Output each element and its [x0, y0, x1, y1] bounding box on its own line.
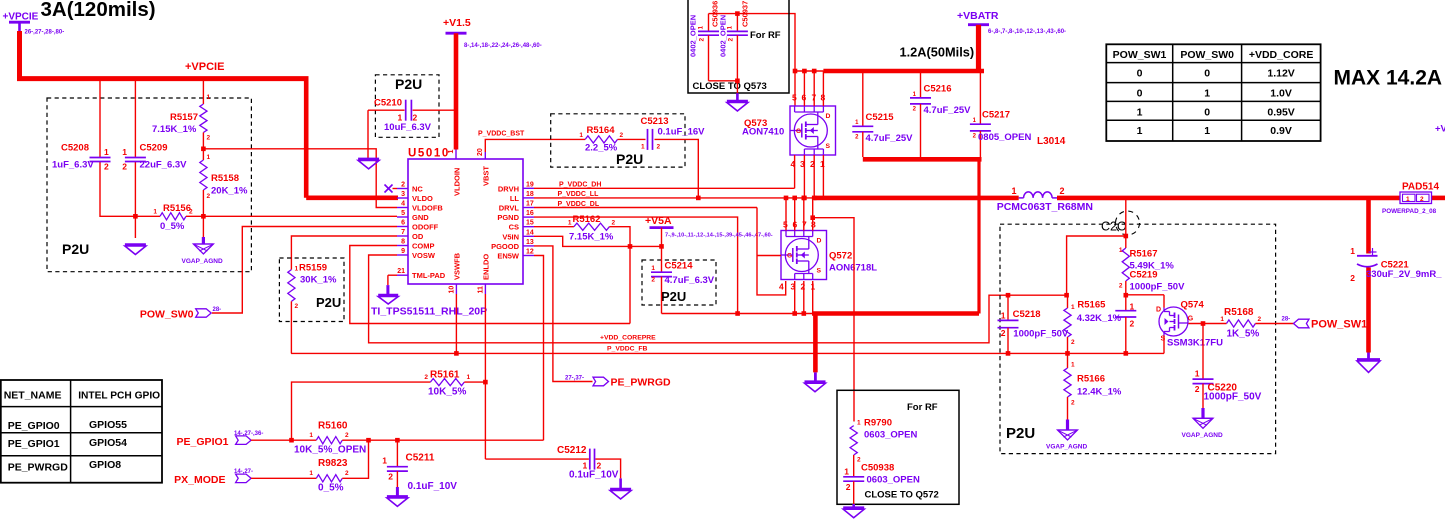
svg-text:R5160: R5160: [318, 421, 348, 432]
svg-text:10K_5%: 10K_5%: [428, 387, 466, 398]
svg-text:1: 1: [382, 456, 387, 466]
svg-text:R5159: R5159: [299, 263, 327, 274]
svg-text:+VDD_COREPRE: +VDD_COREPRE: [600, 335, 656, 342]
svg-text:1: 1: [1001, 311, 1006, 321]
ground (For RF bottom): [843, 504, 864, 518]
svg-text:C5209: C5209: [140, 143, 168, 154]
svg-text:VGAP_AGND: VGAP_AGND: [1182, 432, 1223, 439]
svg-text:14-,27-: 14-,27-: [234, 469, 253, 475]
svg-text:2: 2: [612, 220, 616, 227]
svg-text:C2O: C2O: [1101, 220, 1127, 234]
svg-text:SSM3K17FU: SSM3K17FU: [1167, 338, 1223, 349]
svg-text:2: 2: [846, 482, 851, 492]
svg-text:3: 3: [401, 191, 405, 198]
svg-text:GPIO8: GPIO8: [89, 459, 121, 471]
capacitor C5210: [368, 98, 454, 134]
dashed block P2U (bst): [551, 114, 685, 167]
svg-text:D: D: [1156, 307, 1161, 314]
svg-text:16: 16: [526, 210, 534, 217]
svg-text:1: 1: [309, 432, 313, 439]
svg-text:1: 1: [820, 159, 825, 169]
wire VLDOFB net: [203, 149, 397, 208]
svg-text:1: 1: [448, 150, 455, 154]
transistor Q574: [1156, 300, 1223, 349]
svg-text:0603_OPEN: 0603_OPEN: [864, 430, 917, 441]
wire EN5W net: [534, 256, 544, 441]
note 1.2A(50Mils): [900, 45, 975, 60]
svg-text:1: 1: [1012, 186, 1017, 196]
svg-text:GND: GND: [412, 213, 429, 222]
svg-text:4: 4: [779, 282, 784, 292]
svg-text:VLDOIN: VLDOIN: [453, 168, 462, 196]
svg-text:1: 1: [579, 132, 583, 139]
svg-text:2: 2: [388, 472, 393, 482]
svg-text:1: 1: [698, 26, 705, 30]
resistor R5165: [1064, 295, 1122, 353]
wire cap-bottom rail: [863, 159, 982, 313]
svg-text:1: 1: [727, 26, 734, 30]
wire P_VDDC_DL: [534, 201, 757, 208]
svg-text:1: 1: [1119, 247, 1123, 254]
svg-text:For RF: For RF: [907, 402, 938, 413]
wire P_VDDC_LL (switch rail thin): [534, 191, 814, 198]
svg-text:7: 7: [401, 229, 405, 236]
svg-text:R5167: R5167: [1130, 249, 1158, 260]
svg-text:1: 1: [309, 470, 313, 477]
resistor R5164: [579, 125, 645, 154]
pad PAD514: [1382, 182, 1439, 216]
svg-text:G: G: [796, 128, 801, 135]
resistor R5157: [152, 81, 211, 149]
svg-text:17: 17: [526, 201, 534, 208]
svg-text:1: 1: [1137, 106, 1143, 118]
svg-text:CLOSE TO Q572: CLOSE TO Q572: [865, 490, 939, 501]
svg-text:PE_GPIO0: PE_GPIO0: [8, 420, 60, 432]
svg-text:2: 2: [207, 135, 211, 142]
svg-text:L3014: L3014: [1037, 136, 1066, 147]
svg-text:2: 2: [345, 470, 349, 477]
svg-text:EN5W: EN5W: [497, 252, 520, 261]
svg-text:C5211: C5211: [406, 453, 435, 464]
svg-text:1000pF_50V: 1000pF_50V: [1204, 392, 1262, 403]
svg-text:MAX 14.2A (: MAX 14.2A (: [1334, 67, 1445, 90]
svg-text:GPIO54: GPIO54: [89, 437, 127, 449]
svg-text:0_5%: 0_5%: [160, 221, 185, 232]
power symbol +V1.5: [443, 17, 542, 49]
svg-text:0.1uF_16V: 0.1uF_16V: [658, 127, 706, 138]
svg-text:VGAP_AGND: VGAP_AGND: [182, 258, 223, 265]
svg-text:1uF_6.3V: 1uF_6.3V: [52, 160, 94, 171]
svg-text:1K_5%: 1K_5%: [1227, 329, 1260, 340]
transistor Q573: [742, 93, 836, 170]
svg-text:0.95V: 0.95V: [1267, 106, 1294, 118]
svg-text:2: 2: [1071, 400, 1075, 407]
svg-text:2: 2: [801, 282, 806, 292]
svg-text:0_5%: 0_5%: [318, 483, 344, 494]
svg-text:GPIO55: GPIO55: [89, 419, 127, 431]
note 3A(120mils): [41, 0, 156, 21]
svg-text:R5162: R5162: [573, 214, 601, 225]
svg-text:C5214: C5214: [665, 261, 694, 272]
svg-text:4.7uF_25V: 4.7uF_25V: [866, 133, 914, 144]
svg-text:G: G: [787, 253, 792, 260]
svg-text:P_VDDC_DL: P_VDDC_DL: [558, 201, 600, 208]
no-connect pin2: [385, 185, 398, 193]
svg-text:POW_SW0: POW_SW0: [140, 309, 194, 321]
svg-text:TI_TPS51511_RHL_20P: TI_TPS51511_RHL_20P: [371, 306, 487, 318]
resistor R5156: [137, 203, 397, 232]
svg-text:2: 2: [699, 38, 706, 42]
power symbol +VBATR: [957, 10, 1066, 35]
capacitor C5220: [1193, 324, 1262, 419]
ground (power stage): [805, 382, 826, 392]
svg-text:C50938: C50938: [861, 463, 894, 474]
net label +VDD_CORE (clipped): [1435, 124, 1445, 135]
svg-text:VSWFB: VSWFB: [453, 252, 462, 280]
svg-text:R9790: R9790: [864, 418, 892, 429]
svg-text:1: 1: [844, 467, 849, 477]
svg-text:For RF: For RF: [750, 30, 781, 41]
wire P_VDDC_FB: [291, 346, 1164, 356]
wire ODOFF net: [212, 227, 397, 314]
svg-text:10: 10: [449, 286, 456, 294]
svg-text:S: S: [1161, 336, 1166, 343]
svg-text:+VDD_CORE: +VDD_CORE: [1249, 49, 1313, 61]
wire Q574 source: [1163, 336, 1165, 354]
svg-text:6: 6: [401, 220, 405, 227]
transistor Q572: [779, 220, 877, 292]
svg-text:Q574: Q574: [1181, 300, 1205, 311]
wire P_VDDC_DH: [534, 182, 795, 189]
svg-text:P2U: P2U: [395, 76, 422, 92]
power symbol +VPCIE: [3, 12, 65, 36]
svg-text:1: 1: [1137, 125, 1143, 137]
svg-text:0.1uF_10V: 0.1uF_10V: [408, 481, 458, 492]
table POW_SW truth table: [1106, 44, 1320, 141]
svg-text:4.7uF_25V: 4.7uF_25V: [924, 105, 972, 116]
svg-text:2: 2: [122, 162, 127, 172]
svg-text:R5165: R5165: [1077, 300, 1106, 311]
svg-text:22uF_6.3V: 22uF_6.3V: [140, 160, 188, 171]
svg-text:+VPCIE: +VPCIE: [185, 61, 224, 73]
svg-text:4.7uF_6.3V: 4.7uF_6.3V: [665, 275, 715, 286]
capacitor C5217: [970, 73, 1032, 157]
resistor R5158: [200, 149, 248, 217]
svg-text:1: 1: [467, 374, 471, 381]
svg-text:P2U: P2U: [616, 151, 643, 167]
svg-text:S: S: [826, 143, 831, 150]
svg-text:12.4K_1%: 12.4K_1%: [1077, 387, 1122, 398]
svg-text:2.2_5%: 2.2_5%: [585, 143, 618, 154]
svg-text:INTEL PCH GPIO: INTEL PCH GPIO: [78, 390, 160, 401]
wire switch-node rail thick: [814, 196, 1019, 201]
svg-text:2: 2: [657, 144, 661, 151]
capacitor C50937: [719, 1, 750, 81]
capacitor C50936: [689, 1, 720, 81]
resistor R5160: [251, 421, 543, 456]
wire For-RF bottom link: [709, 79, 740, 101]
svg-text:0402_OPEN: 0402_OPEN: [689, 15, 698, 57]
svg-text:C5216: C5216: [924, 84, 952, 95]
svg-text:PE_GPIO1: PE_GPIO1: [177, 436, 229, 448]
svg-text:AON6718L: AON6718L: [829, 263, 877, 274]
svg-text:0.9V: 0.9V: [1270, 125, 1292, 137]
wire sense link: [1067, 236, 1126, 295]
svg-text:28-: 28-: [1282, 317, 1291, 323]
svg-text:1: 1: [1071, 304, 1075, 311]
ground (C5209): [125, 245, 146, 255]
svg-text:V5IN: V5IN: [502, 232, 519, 241]
svg-text:C5213: C5213: [641, 116, 669, 127]
svg-text:C5210: C5210: [374, 98, 402, 109]
svg-text:NET_NAME: NET_NAME: [4, 389, 62, 401]
wire Q573 pin columns: [795, 71, 824, 200]
svg-text:CLOSE TO Q573: CLOSE TO Q573: [693, 81, 767, 92]
svg-text:+VDD_CORE: +VDD_CORE: [1435, 124, 1445, 135]
resistor R9790: [850, 418, 917, 464]
svg-text:+V5A: +V5A: [645, 215, 672, 227]
svg-text:4: 4: [401, 201, 405, 208]
wire PGOOD to PE_PWRGD: [534, 246, 593, 382]
node VLDOFB junction: [201, 147, 206, 152]
ground (C5221): [1357, 353, 1380, 373]
wire C5209 leg: [133, 81, 138, 238]
svg-text:1000pF_50V: 1000pF_50V: [1130, 282, 1186, 293]
svg-text:2: 2: [1001, 328, 1006, 338]
port PE_GPIO1: [177, 431, 264, 448]
svg-text:D: D: [817, 238, 822, 245]
svg-text:3A(120mils): 3A(120mils): [41, 0, 156, 21]
svg-text:19: 19: [526, 181, 534, 188]
port POW_SW1: [1282, 317, 1368, 331]
net label +VPCIE: [185, 61, 224, 73]
svg-text:1: 1: [1071, 362, 1075, 369]
svg-text:2: 2: [295, 303, 299, 310]
svg-text:TML-PAD: TML-PAD: [412, 271, 446, 280]
svg-text:0805_OPEN: 0805_OPEN: [978, 132, 1031, 143]
svg-text:10K_5%_OPEN: 10K_5%_OPEN: [294, 445, 366, 456]
svg-text:VLDOFB: VLDOFB: [412, 204, 443, 213]
wire +V1.5 thick drop: [454, 33, 459, 149]
svg-text:18: 18: [526, 191, 534, 198]
svg-text:1: 1: [1406, 196, 1410, 203]
wire ENLDO drop: [483, 294, 488, 459]
svg-text:2: 2: [345, 432, 349, 439]
svg-text:OD: OD: [412, 232, 424, 241]
svg-text:8: 8: [401, 239, 405, 246]
svg-text:2: 2: [620, 132, 624, 139]
U5010 pin 21 TML-PAD: [388, 268, 446, 295]
svg-text:0: 0: [1137, 68, 1143, 80]
wire Q572 drain columns: [784, 196, 813, 231]
svg-text:1000pF_50V: 1000pF_50V: [1013, 329, 1069, 340]
svg-text:POWERPAD_2_08: POWERPAD_2_08: [1382, 208, 1437, 215]
svg-text:14-,27-,36-: 14-,27-,36-: [234, 431, 263, 437]
svg-text:330uF_2V_9mR_: 330uF_2V_9mR_: [1366, 269, 1442, 280]
svg-text:1: 1: [153, 209, 157, 216]
svg-text:2: 2: [651, 277, 655, 284]
svg-text:COMP: COMP: [412, 242, 435, 251]
svg-text:1: 1: [857, 420, 861, 427]
svg-text:10uF_6.3V: 10uF_6.3V: [384, 122, 432, 133]
svg-text:11: 11: [478, 286, 485, 294]
resistor R5168: [1189, 307, 1294, 340]
svg-text:ODOFF: ODOFF: [412, 223, 439, 232]
svg-text:AON7410: AON7410: [742, 127, 784, 138]
svg-text:26-,27-,28-,80-: 26-,27-,28-,80-: [25, 30, 65, 36]
svg-text:30K_1%: 30K_1%: [300, 275, 337, 286]
svg-text:R5158: R5158: [211, 173, 239, 184]
table NET_NAME / INTEL PCH GPIO: [1, 380, 162, 483]
svg-text:0: 0: [1204, 68, 1210, 80]
svg-text:R5164: R5164: [587, 125, 616, 136]
svg-text:8: 8: [811, 220, 816, 230]
svg-text:R5161: R5161: [430, 370, 460, 381]
annotation C2O: [1101, 211, 1140, 235]
wire VOSW / +VDD_COREPRE net: [369, 255, 1069, 343]
block For RF (bottom): [837, 390, 959, 504]
svg-text:2: 2: [1119, 283, 1123, 290]
port PX_MODE: [174, 469, 253, 486]
svg-text:28-: 28-: [213, 307, 222, 313]
svg-text:VLDO: VLDO: [412, 194, 433, 203]
svg-text:1.0V: 1.0V: [1270, 88, 1292, 100]
dashed block P2U (input filter): [47, 98, 251, 272]
op-amp/controller U5010 TPS51511: [408, 148, 523, 285]
power symbol +V5A: [630, 215, 773, 249]
svg-text:NC: NC: [412, 185, 423, 194]
svg-text:U5010: U5010: [408, 148, 450, 160]
svg-text:1: 1: [641, 144, 645, 151]
svg-text:1: 1: [398, 113, 403, 123]
svg-text:1: 1: [207, 94, 211, 101]
ground VGAP_AGND (R5166): [1046, 420, 1087, 451]
U5010 right pins: [491, 181, 534, 260]
wire C5210 to ground: [367, 110, 369, 158]
wire PGND net: [534, 217, 740, 316]
svg-text:VGAP_AGND: VGAP_AGND: [1046, 444, 1087, 451]
dashed block P2U (C5210): [375, 75, 439, 138]
svg-text:P_VDDC_LL: P_VDDC_LL: [558, 191, 600, 198]
capacitor C5219: [1115, 270, 1185, 354]
svg-text:+V1.5: +V1.5: [443, 17, 471, 29]
svg-text:1: 1: [1130, 302, 1135, 312]
svg-text:20: 20: [477, 148, 484, 156]
capacitor C5208: [52, 143, 111, 172]
svg-text:0.1uF_10V: 0.1uF_10V: [569, 470, 619, 481]
block For RF (top): [688, 0, 789, 93]
wire snubber branch: [810, 215, 854, 421]
svg-text:1: 1: [295, 266, 299, 273]
wire Q572 source columns: [792, 281, 812, 316]
svg-text:12: 12: [526, 249, 534, 256]
svg-text:1: 1: [104, 147, 109, 157]
svg-text:0: 0: [1137, 88, 1143, 100]
resistor R5159: [288, 263, 337, 354]
svg-text:1: 1: [1350, 246, 1355, 256]
wire COMP net: [350, 246, 630, 324]
svg-text:LL: LL: [510, 194, 520, 203]
U5010 bottom pins 10,11: [449, 252, 491, 294]
note MAX 14.2A: [1334, 67, 1445, 90]
svg-text:C5217: C5217: [982, 110, 1010, 121]
svg-text:1: 1: [1204, 125, 1210, 137]
svg-text:C5208: C5208: [61, 143, 89, 154]
svg-text:P2U: P2U: [316, 295, 341, 310]
svg-text:DRVH: DRVH: [498, 184, 519, 193]
svg-text:2: 2: [207, 193, 211, 200]
svg-text:2: 2: [424, 374, 428, 381]
wire BST to LL: [655, 139, 701, 200]
port POW_SW0: [140, 307, 221, 321]
wire power ground rail: [662, 314, 980, 382]
svg-text:+VBATR: +VBATR: [957, 10, 999, 22]
svg-text:PE_GPIO1: PE_GPIO1: [8, 438, 60, 450]
capacitor C5214: [651, 246, 715, 313]
svg-text:21: 21: [397, 268, 405, 275]
svg-text:PAD514: PAD514: [1402, 182, 1439, 193]
svg-text:0: 0: [1204, 106, 1210, 118]
svg-text:VOSW: VOSW: [412, 251, 436, 260]
wire +VPCIE thick rail: [20, 31, 399, 198]
svg-text:1: 1: [1204, 88, 1210, 100]
capacitor C5215: [852, 73, 913, 157]
svg-text:1: 1: [1195, 369, 1200, 379]
svg-text:6-,8-,7-,8-,10-,12-,13-,43-,60: 6-,8-,7-,8-,10-,12-,13-,43-,60-: [988, 29, 1066, 35]
svg-text:1: 1: [568, 220, 572, 227]
svg-text:C5218: C5218: [1013, 309, 1041, 320]
svg-text:C5219: C5219: [1130, 270, 1158, 281]
wire V5IN jog: [534, 236, 630, 246]
resistor R5162: [534, 214, 616, 243]
svg-text:VBST: VBST: [482, 166, 491, 186]
svg-text:7.15K_1%: 7.15K_1%: [569, 232, 614, 243]
ground (TML-PAD): [378, 295, 398, 304]
svg-text:PX_MODE: PX_MODE: [174, 474, 225, 486]
svg-text:PE_PWRGD: PE_PWRGD: [611, 377, 672, 389]
svg-text:1.2A(50Mils): 1.2A(50Mils): [900, 45, 975, 60]
svg-text:20K_1%: 20K_1%: [211, 186, 248, 197]
wire C5208 leg: [100, 81, 137, 216]
svg-text:R5156: R5156: [163, 203, 191, 214]
svg-text:9: 9: [401, 248, 405, 255]
svg-text:G: G: [1188, 316, 1194, 323]
svg-text:1.12V: 1.12V: [1267, 68, 1294, 80]
dashed block P2U (R5159): [279, 258, 344, 322]
resistor R5166: [1064, 353, 1122, 419]
svg-text:ENLDO: ENLDO: [482, 254, 491, 280]
svg-text:8-,14-,18-,22-,24-,26-,48-,60-: 8-,14-,18-,22-,24-,26-,48-,60-: [464, 43, 542, 49]
svg-text:R5168: R5168: [1224, 307, 1254, 318]
svg-text:2: 2: [1071, 339, 1075, 346]
svg-text:POW_SW1: POW_SW1: [1113, 49, 1167, 61]
capacitor C50938: [843, 455, 920, 504]
svg-text:P2U: P2U: [1006, 425, 1035, 442]
wire OD net: [291, 236, 397, 270]
svg-text:27-,37-: 27-,37-: [565, 376, 584, 382]
capacitor C5211: [382, 440, 457, 496]
svg-text:R5166: R5166: [1077, 374, 1105, 385]
ground (C5210): [358, 159, 379, 169]
capacitor C5216: [910, 73, 971, 157]
svg-text:2: 2: [1060, 186, 1065, 196]
svg-text:5: 5: [401, 210, 405, 217]
svg-text:2: 2: [104, 162, 109, 172]
capacitor C5221 (bulk output): [1350, 198, 1442, 353]
ground (C5212): [610, 489, 631, 499]
svg-text:14: 14: [526, 229, 534, 236]
svg-text:0603_OPEN: 0603_OPEN: [867, 475, 920, 486]
